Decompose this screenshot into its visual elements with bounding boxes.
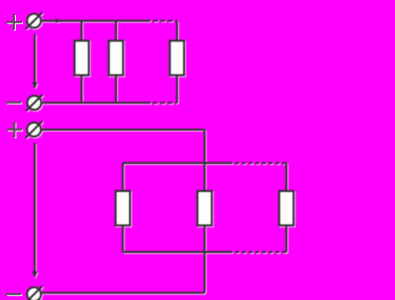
wire: top feed of circuit 2	[41, 129, 205, 131]
wire: R5 bottom lead to lower rail	[204, 225, 206, 252]
minus sign of source 2	[6, 293, 21, 295]
white halo offset copy of all schematic line work	[27, 13, 295, 300]
wire: R6 bottom lead to lower rail	[285, 225, 287, 252]
resistor R6	[279, 191, 293, 225]
schematic line work	[26, 12, 294, 300]
wire: lower rail of circuit 2, solid part	[123, 251, 233, 253]
current arrow (pointing down) above T4	[32, 271, 38, 277]
wire: bottom bus of circuit 1, solid part	[41, 102, 150, 104]
wire: drop from upper rail to resistor R5	[204, 163, 206, 191]
wire: drop from top bus to resistor R2	[115, 21, 117, 41]
halo copies of polarity signs	[7, 15, 23, 295]
wire: drop from upper rail to resistor R4	[122, 163, 124, 191]
wire: upper rail of circuit 2, solid part	[123, 162, 233, 164]
wire: R2 bottom lead to bottom bus	[115, 75, 117, 103]
wire: lower rail of circuit 2, dashed continuation	[233, 251, 287, 253]
plus sign of source 1	[6, 14, 22, 30]
wire: main vertical from lower rail down to bottom return	[204, 252, 206, 293]
terminal T1 (circle with slash, + of source 1)	[26, 12, 43, 29]
wire: drop from top bus to resistor R3	[176, 21, 178, 41]
wire: bottom return of circuit 2	[41, 292, 205, 294]
wire: top bus of circuit 1, dashed continuation	[150, 20, 177, 22]
resistor R4	[116, 191, 130, 225]
resistor R3	[170, 41, 184, 75]
wire: left vertical from T1 down to T2	[34, 34, 36, 88]
wire: left vertical from T3 down to T4	[34, 143, 36, 276]
terminal T3 (circle with slash, + of source 2)	[26, 121, 43, 138]
wire: R4 bottom lead to lower rail	[122, 225, 124, 252]
terminal T4 (circle with slash, - of source 2)	[26, 286, 43, 300]
wire: drop from top bus to resistor R1	[81, 21, 83, 41]
resistor R5	[197, 191, 211, 225]
current arrow on top bus (pointing right)	[56, 19, 61, 24]
wire: R3 bottom lead to bottom bus	[176, 75, 178, 103]
wire: bottom bus of circuit 1, dashed continuation	[150, 102, 177, 104]
resistor R1	[75, 41, 89, 75]
wire: main vertical drop from top feed to upper rail	[204, 130, 206, 163]
wire: drop from upper rail to resistor R6	[285, 163, 287, 191]
plus sign of source 2	[7, 122, 22, 138]
wire: top bus of circuit 1, solid part	[41, 20, 151, 22]
current arrow (pointing down) above T2	[32, 82, 38, 88]
wire: R1 bottom lead to bottom bus	[81, 75, 83, 103]
wire: upper rail of circuit 2, dashed continuation	[233, 162, 287, 164]
terminal T2 (circle with slash, - of source 1)	[26, 95, 43, 112]
resistor R2	[109, 41, 123, 75]
minus sign of source 1	[6, 101, 21, 103]
